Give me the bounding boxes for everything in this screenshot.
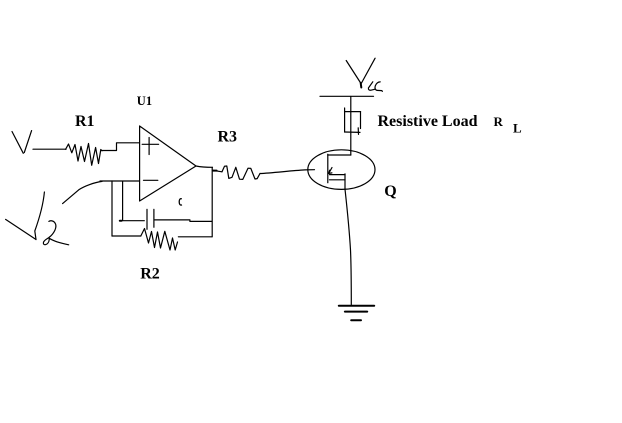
wire inverting input — [100, 180, 140, 182]
Q gate bar — [327, 154, 329, 183]
feedback right vertical wire from output — [211, 167, 213, 237]
wire R3 to Q gate — [260, 170, 315, 174]
voltage source V1 symbol — [12, 131, 32, 154]
ground top line — [339, 305, 374, 307]
resistor R1 — [66, 144, 102, 166]
Q drain internal wire — [328, 154, 351, 156]
svg-text:Q: Q — [384, 183, 396, 200]
resistor R3 — [222, 166, 260, 179]
Q source internal wire lower — [330, 179, 346, 181]
feedback capacitor branch vertical wire — [122, 182, 124, 221]
op-amp minus sign — [144, 179, 158, 181]
resistive load RL box — [345, 108, 361, 134]
capacitor right wire — [155, 220, 212, 222]
op-amp U1 triangle — [140, 126, 196, 201]
capacitor C left plate — [146, 209, 148, 229]
wire V1 to R1 — [33, 148, 66, 150]
feedback bottom wire left segment — [112, 235, 141, 237]
supply rail bar — [320, 95, 374, 97]
Vcc symbol V — [346, 58, 375, 87]
label c (capacitor) — [179, 199, 182, 205]
transistor Q body ellipse — [308, 150, 375, 190]
Q body arrow — [329, 168, 332, 174]
wire V2 to inverting input — [63, 181, 102, 203]
wire output to R3 — [213, 170, 222, 171]
capacitor left wire — [120, 220, 144, 222]
wire R1 to op-amp non-inverting input — [102, 143, 140, 151]
svg-text:R3: R3 — [218, 129, 238, 146]
voltage source V2 symbol — [6, 192, 45, 240]
op-amp output wire — [196, 166, 213, 167]
Q drain vertical wire — [350, 97, 352, 156]
svg-text:R1: R1 — [75, 113, 95, 130]
V2 subscript 2 scribble — [43, 221, 68, 245]
junction dot — [120, 220, 122, 222]
Q source internal wire upper — [330, 174, 346, 176]
feedback left vertical wire (R2 branch) — [111, 181, 113, 236]
svg-text:U1: U1 — [137, 94, 152, 108]
op-amp plus sign — [142, 138, 158, 155]
resistor R2 — [141, 229, 178, 251]
svg-text:Resistive Load: Resistive Load — [378, 113, 478, 130]
svg-text:L: L — [513, 121, 522, 136]
ground middle line — [345, 311, 367, 313]
feedback bottom wire right segment — [178, 236, 212, 238]
svg-text:R2: R2 — [140, 266, 160, 283]
ground bottom line — [351, 319, 361, 321]
output node tick — [213, 170, 217, 172]
Q source wire down to ground — [345, 174, 351, 305]
capacitor C right plate — [153, 209, 155, 227]
Vcc subscript cc scribble — [368, 82, 382, 92]
svg-text:R: R — [494, 114, 504, 129]
